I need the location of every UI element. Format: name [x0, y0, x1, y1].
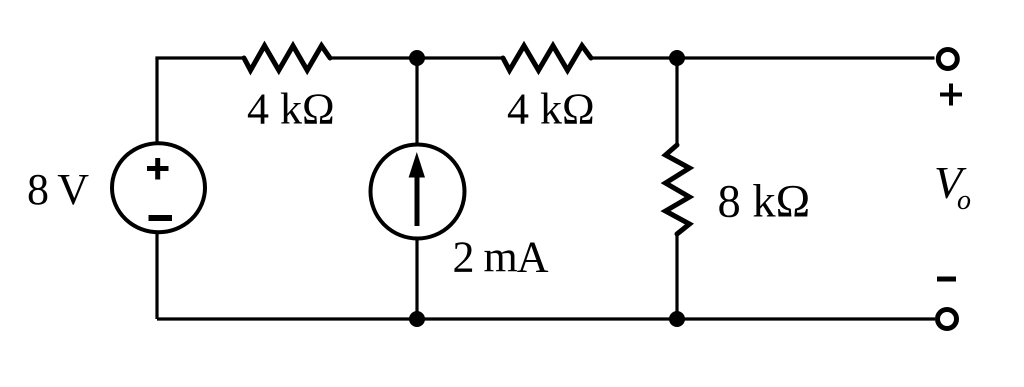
wire: from current source I1 bottom to bottom rail — [415, 240, 418, 319]
svg-text:8 kΩ: 8 kΩ — [718, 177, 811, 228]
label: plus sign inside voltage source — [147, 158, 169, 180]
wire: top rail between R1 and R2 through node A — [330, 56, 503, 59]
node D junction dot (bottom of R3) — [669, 311, 685, 327]
svg-text:8 V: 8 V — [27, 165, 89, 214]
wire: from voltage source V1 bottom to bottom rail — [155, 233, 158, 319]
wire: top rail, left segment to R1 — [155, 56, 244, 59]
node A junction dot (top of current source) — [409, 50, 425, 66]
current source I1 circle — [371, 145, 465, 239]
node B junction dot (top of R3) — [669, 50, 685, 66]
current source I1 arrow (pointing up) — [409, 152, 425, 226]
terminal: output positive (open circle, top right) — [938, 50, 957, 69]
wire: left riser from voltage source V1 top to top rail — [155, 58, 158, 144]
svg-text:4 kΩ: 4 kΩ — [247, 85, 335, 134]
resistor R2 4 kOhm (horizontal zigzag) — [503, 46, 591, 71]
wire: bottom rail — [157, 317, 935, 320]
voltage source V1 circle — [112, 143, 205, 232]
wire: from node A down to current source I1 top — [415, 58, 418, 145]
resistor R3 8 kOhm (vertical zigzag) — [666, 145, 690, 234]
node C junction dot (bottom of current source) — [409, 311, 425, 327]
label: Vo output voltage — [934, 157, 971, 216]
svg-text:4 kΩ: 4 kΩ — [507, 85, 595, 134]
resistor R1 4 kOhm (horizontal zigzag) — [244, 46, 330, 71]
terminal: output negative (open circle, bottom right) — [938, 310, 957, 329]
svg-text:o: o — [957, 185, 971, 216]
label: plus sign at output terminal — [940, 84, 962, 106]
wire: from resistor R3 bottom to bottom rail — [675, 233, 678, 319]
label: minus sign at output terminal — [937, 277, 956, 282]
label: minus sign inside voltage source — [149, 215, 173, 221]
wire: from node B down to resistor R3 top — [675, 58, 678, 146]
wire: top rail between R2 and output terminal through node B — [591, 56, 935, 59]
svg-text:2 mA: 2 mA — [453, 233, 549, 282]
